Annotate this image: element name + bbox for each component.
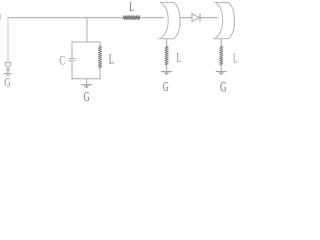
wire: cavity 1 output to diode bbox=[180, 17, 192, 19]
svg-text:C: C bbox=[59, 54, 65, 68]
wire: tank bottom lead to ground bbox=[86, 79, 88, 85]
wire: branch 2 inductor to ground bbox=[220, 64, 222, 71]
inductor L (tank coil) bbox=[98, 46, 101, 67]
svg-text:L: L bbox=[233, 51, 238, 66]
wire: bus segment from series inductor to cavity 1 bbox=[140, 17, 164, 19]
wire: branch 1 inductor to ground bbox=[166, 64, 168, 71]
diode D (detector) bbox=[192, 14, 200, 22]
ground (tank) bbox=[81, 85, 92, 89]
svg-text:G: G bbox=[220, 78, 227, 95]
wire: tank loop left edge upper bbox=[71, 42, 73, 59]
wire: tank loop right edge upper bbox=[99, 42, 101, 47]
ground electrode (left) bbox=[4, 74, 12, 77]
svg-text:G: G bbox=[84, 90, 90, 105]
wire: top bus from antenna corner to series inductor bbox=[8, 17, 124, 19]
svg-text:G: G bbox=[4, 76, 10, 90]
capacitor C (plates) bbox=[69, 59, 76, 61]
wire: tank top lead bbox=[86, 18, 88, 42]
wire: tank loop right edge lower bbox=[99, 67, 101, 79]
arrester diode to ground (left), triangle with bar bbox=[5, 63, 12, 73]
cavity resonator 2 bbox=[213, 3, 234, 39]
inductor L (branch 1) bbox=[165, 46, 168, 65]
inductor L (branch 2) bbox=[220, 46, 223, 65]
wire: tank loop left edge lower bbox=[71, 61, 73, 79]
svg-text:L: L bbox=[129, 1, 133, 15]
wire stub at left image edge bbox=[0, 14, 2, 20]
wire: antenna down-lead (purple) bbox=[7, 18, 9, 63]
ground (branch 1) bbox=[161, 72, 172, 76]
inductor L (series, in top bus) bbox=[123, 16, 140, 20]
svg-text:L: L bbox=[109, 51, 114, 67]
svg-text:L: L bbox=[177, 51, 182, 66]
cavity resonator 1 bbox=[159, 3, 180, 39]
ground (branch 2) bbox=[216, 72, 227, 76]
wire: cavity 2 bottom lead bbox=[220, 39, 222, 47]
wire: tank loop top edge bbox=[72, 41, 100, 43]
wire: tank loop bottom edge bbox=[72, 78, 100, 80]
wire: cavity 1 bottom lead bbox=[166, 39, 168, 47]
wire: diode to cavity 2 bbox=[200, 17, 218, 19]
svg-text:G: G bbox=[163, 80, 169, 95]
